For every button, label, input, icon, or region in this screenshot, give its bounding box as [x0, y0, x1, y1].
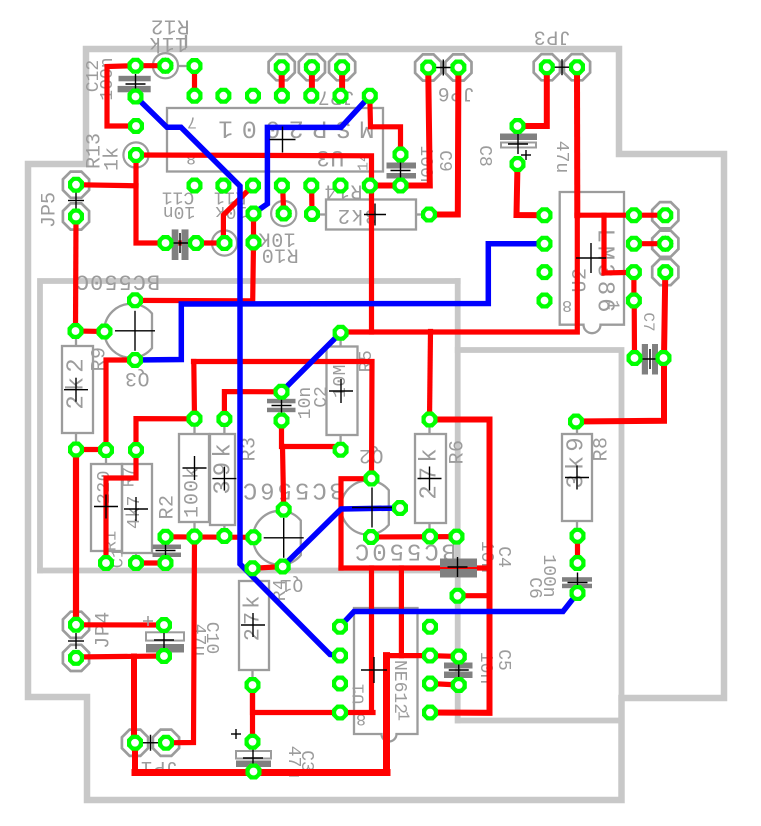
pad C9-1	[393, 147, 409, 163]
pad Q2 collector	[364, 471, 380, 487]
svg-text:1: 1	[393, 711, 412, 721]
label MSP2001	[210, 114, 375, 143]
label NE612	[389, 660, 409, 714]
pad U3 pin bot1	[187, 178, 203, 194]
pad U3 pin top2	[215, 88, 231, 104]
test pad TP1 circle	[153, 53, 178, 78]
pad C7-2	[656, 350, 672, 366]
connector JP1 pin2 octagon	[153, 730, 179, 756]
pad U2 pinL2	[537, 236, 553, 252]
resistor R8 body	[562, 422, 592, 536]
pad U3 pin top1	[187, 88, 203, 104]
wire JP1-1 down	[132, 743, 138, 773]
C5 origin	[449, 660, 469, 680]
pad U1 pinL4	[332, 705, 348, 721]
wire x604 branch	[604, 215, 634, 273]
svg-text:47u: 47u	[188, 624, 208, 656]
connector JP2 pin2 octagon	[652, 231, 678, 257]
pad Q1 base	[246, 529, 262, 545]
pad R14-2	[421, 207, 437, 223]
resistor R5 body	[327, 333, 358, 450]
pad R5-1	[333, 325, 349, 341]
wire U3 pin4 stub down	[283, 186, 284, 214]
pad C6-1	[570, 555, 586, 571]
value 10n C4	[476, 541, 496, 573]
wire JP4-2 branch down to JP1-1	[134, 657, 135, 743]
pad U1 pinR4	[422, 705, 438, 721]
wire R3 top jog to C2	[224, 392, 281, 419]
JP3 origin	[554, 59, 570, 75]
pad R6-1	[422, 412, 438, 428]
pad U1 pinL3	[332, 676, 348, 692]
pad C8-2	[510, 156, 526, 172]
capacitor C11 bars	[172, 229, 189, 260]
pad TP R12	[157, 58, 173, 74]
pad pad JP7-3	[334, 59, 350, 75]
pad R4-1	[245, 560, 261, 576]
pad U2 pinL4	[537, 293, 553, 309]
connector JP2 pin3 octagon	[652, 259, 678, 285]
label U3	[316, 144, 345, 170]
svg-text:2k2: 2k2	[64, 354, 91, 409]
label R1	[103, 531, 122, 551]
Q1 origin	[264, 518, 304, 558]
pad C2-1	[274, 384, 290, 400]
pad Q2 base	[392, 500, 408, 516]
pad pad JP2-1	[657, 207, 673, 223]
pad R3-1	[216, 411, 232, 427]
svg-text:R8: R8	[591, 436, 614, 461]
pad U3 pin top7	[362, 88, 378, 104]
label JP5	[39, 192, 62, 228]
label C11	[162, 187, 194, 207]
inner frame B (right room)	[458, 350, 622, 721]
value 47u C8	[551, 141, 571, 173]
pin 1 U1	[393, 711, 412, 721]
wire JP4-1 to C10 top	[76, 622, 164, 627]
wire blue U3 pin14 to R10 pad	[254, 96, 370, 214]
C11 origin	[170, 233, 190, 253]
JP2 origin	[657, 236, 673, 252]
label BC550C Q2	[352, 537, 456, 564]
wire x371 vertical	[369, 568, 374, 712]
wire x341 vertical	[341, 479, 372, 568]
wire U3 pin3 diagonal to R11	[223, 186, 253, 244]
value 10n C2	[296, 387, 316, 419]
pad pad JP1-1	[127, 735, 143, 751]
svg-text:10n: 10n	[163, 201, 195, 221]
pad C7-1	[627, 350, 643, 366]
value 3k9	[564, 433, 591, 488]
pad U2 pinR1	[626, 207, 642, 223]
C8 origin	[508, 134, 528, 154]
pad U3 pin top5	[303, 88, 319, 104]
U1 origin	[361, 657, 387, 683]
JP7 origin	[304, 59, 320, 75]
wire JP5-1 to R13 column	[76, 185, 136, 186]
label JP1	[140, 755, 178, 778]
pad pad JP2-2	[657, 236, 673, 252]
label U2	[570, 267, 593, 292]
label Q1	[281, 574, 304, 594]
label JP6	[437, 81, 475, 104]
pad U3 pin bot7	[362, 178, 378, 194]
wire pads row y243	[166, 240, 225, 245]
wire R2 bottom down to JP1-2	[166, 537, 195, 743]
wire C1 to R7 bottom	[136, 560, 166, 565]
connector JP6 pin1 octagon	[415, 54, 441, 80]
pad row243 b	[188, 235, 204, 251]
capacitor C2 bars	[267, 399, 296, 412]
pad U3 pin bot6	[333, 178, 349, 194]
pad pad JP6-2	[450, 60, 466, 76]
pad R8-1	[568, 414, 584, 430]
pad U2 pinR4	[626, 293, 642, 309]
value 27k R4	[241, 593, 266, 642]
svg-text:Q1: Q1	[281, 574, 304, 594]
value 27k R6	[417, 444, 444, 499]
wire row y450	[76, 447, 105, 452]
label R7	[121, 467, 140, 487]
pin 8 U2	[562, 295, 572, 314]
test pad TP3 circle	[271, 201, 296, 226]
R3 origin	[212, 467, 236, 491]
pad U1 pinR3	[422, 676, 438, 692]
label C1	[110, 548, 129, 568]
connector JP7 pin3 octagon	[329, 54, 355, 80]
wire blue C12 to NE612 pin1 long	[136, 97, 341, 656]
JP1 origin	[143, 735, 159, 751]
pad C5-1	[451, 649, 467, 665]
svg-text:NE612: NE612	[389, 660, 409, 714]
resistor R6 body	[415, 420, 446, 537]
U3 origin	[270, 127, 296, 153]
label C8	[474, 145, 494, 167]
svg-text:C8: C8	[474, 145, 494, 167]
wire x401 vertical	[399, 568, 404, 656]
pad R2-2	[187, 529, 203, 545]
value 220	[95, 470, 115, 504]
pad U3 pin bot5	[303, 178, 319, 194]
value 39k	[211, 439, 238, 494]
wire blue Q3 to U2 long	[135, 244, 545, 360]
wire JP6-2 down to R14	[429, 68, 458, 215]
pad C9-2	[393, 178, 409, 194]
value 100n C12	[98, 57, 118, 100]
pad R1-2	[98, 555, 114, 571]
pad U1 pinL2	[332, 648, 348, 664]
label R9	[89, 346, 112, 371]
pad Q1 emitter	[275, 559, 291, 575]
label R4	[271, 579, 291, 602]
wire R7 top to y418 line	[136, 419, 195, 450]
transistor Q3 outline	[104, 304, 152, 358]
label Q2	[358, 443, 383, 466]
pad pad JP4-1	[68, 617, 84, 633]
svg-text:100n: 100n	[538, 554, 558, 597]
pad U1 pinL1	[332, 619, 348, 635]
wire NE612 pin2 to C5	[430, 653, 459, 659]
wire C2 bottom junction	[282, 421, 341, 450]
pad U1 pinR2	[422, 648, 438, 664]
wire R12 pads	[136, 63, 166, 68]
pad R3-2	[216, 528, 232, 544]
label C5	[493, 649, 513, 671]
pad C4-2	[450, 588, 466, 604]
Q3 origin	[115, 311, 155, 351]
wire R6 top to x489	[430, 420, 490, 713]
TP3 cross	[276, 206, 292, 222]
pad R7-1	[128, 442, 144, 458]
pad pad JP3-1	[539, 59, 555, 75]
silk R12 tick	[179, 35, 188, 66]
label R13	[84, 133, 107, 169]
capacitor C3 bars	[231, 729, 271, 767]
wire blue NE612 pin1 to C6	[340, 593, 578, 627]
pad U1 pinR1	[422, 619, 438, 635]
wire Q3 base pads	[76, 328, 105, 334]
wire U3 pin14 S to C9	[370, 96, 401, 155]
pin 8 label	[186, 148, 196, 167]
pad U3 pin bot4	[274, 178, 290, 194]
R4 origin	[241, 613, 265, 637]
connector JP7 pin2 octagon	[299, 54, 325, 80]
pin 7 label	[187, 112, 197, 131]
pad C10-1	[156, 617, 172, 633]
R9 origin	[64, 378, 88, 402]
pad C3-2	[246, 764, 262, 780]
pin 8 U1	[356, 709, 366, 728]
wire JP3-1 to C8 top	[518, 67, 547, 126]
label C12	[84, 60, 104, 92]
wire JP3-2 down	[574, 67, 580, 215]
value 2k2	[64, 354, 91, 409]
wire Q1 bottom to R4 top	[253, 567, 283, 569]
U2 origin	[576, 243, 606, 273]
wire R4 bottom to NE612	[253, 685, 374, 713]
wire JP6-1 down to U3 pin8	[370, 68, 430, 186]
wire R12 to R13 C-shape	[107, 66, 136, 126]
label R5	[357, 350, 377, 373]
label C4	[493, 546, 513, 568]
connector JP6 pin2 octagon	[445, 54, 471, 80]
ic U1 NE612 body	[354, 608, 418, 742]
pad C2-2	[274, 413, 290, 429]
svg-text:Q3: Q3	[124, 366, 149, 389]
wire C4 bottom stub	[458, 593, 490, 598]
wire junction down to Q1 top	[283, 447, 284, 510]
wire bottom rail y772	[135, 769, 387, 776]
R5 origin	[329, 379, 353, 403]
wire NE612 pin3 to C5	[430, 684, 459, 686]
capacitor C8 bars	[500, 134, 537, 161]
TP1 cross	[157, 58, 173, 74]
label R8	[591, 436, 614, 461]
TP2 cross	[128, 147, 144, 163]
wire JP2-3 down through C7 to R8	[576, 272, 665, 421]
label R14	[323, 179, 362, 202]
pad R6-2	[422, 529, 438, 545]
C10 origin	[154, 630, 174, 650]
label R3	[239, 436, 262, 461]
C6 origin	[568, 573, 588, 593]
pad U2 pinL3	[537, 264, 553, 280]
connector JP1 pin1 octagon	[122, 730, 148, 756]
value 100k R2	[182, 466, 205, 518]
svg-text:1k: 1k	[102, 147, 125, 171]
pad row243 d	[246, 235, 262, 251]
capacitor C10 bars	[143, 616, 184, 653]
value 11k	[148, 31, 187, 54]
wire U2 pin to C7 left	[632, 301, 637, 359]
pad Q3 base/R9	[68, 323, 84, 339]
pad pad JP2-3	[657, 264, 673, 280]
pad R8-2	[570, 528, 586, 544]
wire R10 column to Q3 horizontal	[135, 243, 254, 301]
label R6	[447, 439, 470, 464]
wire U2 row1 to JP2	[577, 213, 665, 218]
svg-text:100k: 100k	[182, 466, 205, 518]
wire row y537 left	[166, 534, 254, 540]
pad pad JP4-2	[68, 650, 84, 666]
wire x386 down to bottom rail	[383, 656, 390, 772]
pad C1-2	[158, 555, 174, 571]
wire R8 bottom stub to C6	[575, 536, 580, 563]
test pad TP4 circle	[212, 230, 237, 255]
JP6 origin	[435, 60, 451, 76]
capacitor C12 bars	[118, 76, 151, 93]
label JP3	[533, 25, 571, 48]
svg-text:11k: 11k	[148, 31, 187, 54]
value 47u C3	[283, 746, 303, 778]
label U1	[351, 684, 370, 704]
pad R4-2	[245, 677, 261, 693]
value 3k2	[337, 203, 378, 226]
label C3	[296, 750, 316, 772]
wire Q3 emitter left-down	[106, 360, 135, 450]
C3 origin	[243, 748, 263, 768]
C2 origin	[272, 396, 292, 416]
C12 origin	[126, 74, 146, 94]
pad R12-3	[187, 58, 203, 74]
pad C12-2	[128, 89, 144, 105]
wire y332 junction to R6 top	[430, 332, 431, 420]
pad U3 pin top4	[274, 88, 290, 104]
wire C8 bottom to U2 pin1	[517, 164, 545, 215]
wire U2 row2 to JP2	[634, 241, 665, 246]
resistor R4 body	[239, 568, 269, 685]
ic U2 LM386 body	[560, 192, 624, 333]
capacitor C1 bars	[153, 545, 182, 558]
value 100n C6	[538, 554, 558, 597]
resistor R14 body	[312, 200, 428, 230]
value 100n C9	[415, 145, 435, 188]
wire R13 long horizontal y156	[136, 155, 372, 332]
inner frame vertical	[455, 281, 461, 721]
pad TP R10	[276, 206, 292, 222]
label JP7	[317, 85, 355, 108]
capacitor C9 bars	[387, 163, 417, 179]
pin 1 U2	[603, 300, 622, 310]
pad R12-1/C12	[128, 58, 144, 74]
label R10	[261, 243, 299, 266]
wire R9 down to JP4	[73, 450, 79, 625]
pad C6-2	[570, 585, 586, 601]
pad U3 pin bot2	[215, 178, 231, 194]
value 1k	[102, 147, 125, 171]
value 4k7	[125, 495, 145, 529]
JP4 origin	[68, 633, 84, 649]
connector JP4 pin1 octagon	[63, 612, 89, 638]
pad pad JP5-2	[68, 209, 84, 225]
svg-text:R6: R6	[447, 439, 470, 464]
capacitor C5 bars	[444, 663, 473, 679]
capacitor C4 bars	[440, 559, 477, 578]
svg-text:JP3: JP3	[533, 25, 571, 48]
label C2	[312, 386, 332, 408]
pad TP R11	[217, 235, 233, 251]
pad pad JP7-2	[304, 59, 320, 75]
svg-text:10n: 10n	[296, 387, 316, 419]
transistor Q2 outline	[341, 481, 389, 535]
svg-text:R2: R2	[157, 494, 180, 519]
pad Q3 emitter	[127, 352, 143, 368]
Q2 origin	[352, 488, 392, 528]
resistor R9 body	[62, 333, 93, 449]
svg-text:JP5: JP5	[39, 192, 62, 228]
svg-text:JP4: JP4	[93, 611, 116, 649]
label BC550C Q3	[75, 269, 160, 294]
pad U3 pin bot3	[245, 178, 261, 194]
value 10M	[331, 364, 351, 398]
resistor R1 body	[91, 450, 122, 563]
svg-text:C9: C9	[434, 150, 454, 172]
pad R7-2	[128, 555, 144, 571]
pad U2 pinR3	[626, 264, 642, 280]
transistor Q1 outline	[253, 511, 301, 565]
pad C3-1	[245, 734, 261, 750]
pad Q2 emitter	[363, 529, 379, 545]
wire Q2 row y537	[371, 534, 457, 540]
C9 origin	[391, 161, 411, 181]
pad pad JP5-1	[68, 177, 84, 193]
svg-text:C5: C5	[493, 649, 513, 671]
svg-text:U2: U2	[570, 267, 593, 292]
label BC556C Q1	[240, 476, 344, 503]
svg-text:U1: U1	[351, 684, 370, 704]
svg-text:BC556C: BC556C	[240, 476, 344, 503]
pad R14-1	[304, 206, 320, 222]
label JP4	[93, 611, 116, 649]
wire blue R5 to C2	[282, 333, 341, 392]
wire R7 top jog through R1	[106, 450, 136, 563]
pad pad JP3-2	[569, 59, 585, 75]
wire C3 top stub	[250, 685, 255, 742]
pad Q1 collector	[276, 502, 292, 518]
wire JP4-2 to C10 bottom	[76, 656, 164, 657]
pad R5-2	[333, 442, 349, 458]
pad U2 pinR2	[626, 236, 642, 252]
inner frame A (top-left room)	[40, 281, 458, 571]
pad R13-2 TP	[128, 147, 144, 163]
pad C10-2	[156, 648, 172, 664]
connector JP5 pin1 octagon	[63, 172, 89, 198]
connector JP5 pin2 octagon	[63, 203, 89, 229]
label Q3	[124, 366, 149, 389]
value 10k	[215, 201, 247, 221]
svg-text:4k7: 4k7	[125, 495, 145, 529]
pad C8-1	[510, 118, 526, 134]
